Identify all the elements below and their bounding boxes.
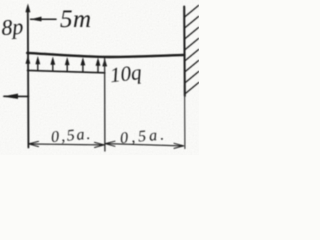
- paper grain: [0, 0, 199, 155]
- wall hatch 2: [185, 17, 199, 29]
- wire: middle extension line (load right edge): [104, 59, 106, 152]
- wall hatch 1: [185, 6, 199, 18]
- wire: left vertical member / extension line: [27, 10, 30, 148]
- wall hatch 8: [185, 83, 199, 95]
- load arrow 4: [65, 57, 70, 72]
- dimension label 0,5a (right): [119, 126, 167, 147]
- wall (fixed support) vertical line: [183, 7, 186, 97]
- moment arrow 5m (horizontal, arrowhead pointing left): [30, 17, 56, 22]
- distributed load baseline: [28, 70, 105, 72]
- dimension label 0,5a (left): [50, 126, 92, 147]
- svg-text:0,5a.: 0,5a.: [50, 126, 92, 147]
- svg-text:10q: 10q: [109, 60, 143, 87]
- label 5m: [60, 6, 92, 33]
- label 8p: [0, 14, 24, 40]
- beam (horizontal member to wall): [27, 53, 184, 57]
- wall hatch 4: [185, 39, 199, 51]
- load arrow 3: [50, 57, 55, 72]
- dimension line right (0,5a): [105, 141, 183, 148]
- wall hatch 3: [185, 28, 199, 40]
- load arrow 5: [81, 57, 86, 72]
- svg-text:8p: 8p: [0, 14, 24, 40]
- paper background: [0, 0, 199, 155]
- load arrow 2: [35, 56, 40, 71]
- wall hatch 6: [185, 61, 199, 73]
- dimension line left (0,5a): [29, 141, 105, 147]
- force 8p arrowhead (up): [25, 4, 30, 13]
- label 10q: [109, 60, 143, 87]
- horizontal force arrow (pointing left): [2, 94, 28, 99]
- load arrow 7 (right edge): [102, 58, 107, 66]
- wire: right extension line below wall: [184, 96, 186, 149]
- wall hatch 5: [185, 50, 199, 62]
- svg-text:5m: 5m: [60, 6, 92, 33]
- load arrow 6: [96, 58, 101, 73]
- wall hatch 7: [185, 72, 199, 84]
- load arrow 1 (at column): [26, 56, 31, 64]
